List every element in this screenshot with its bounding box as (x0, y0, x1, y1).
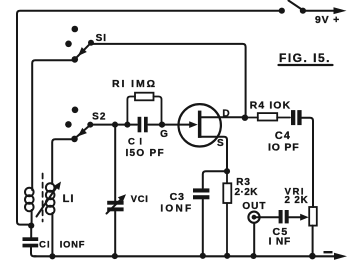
wire: S1 pole left then down to L1 left winding (32, 60, 72, 188)
capacitor C5 plates (279, 210, 283, 223)
svg-text:CI: CI (39, 240, 51, 250)
resistor R4 body (258, 113, 277, 120)
capacitor C1 10NF bottom lead (31, 248, 36, 257)
resistor R1 leads (127, 97, 135, 123)
wire: S2 pole left then down to L1 right winding (52, 139, 72, 184)
svg-text:S: S (217, 138, 224, 149)
junction node: drain / R4 (242, 115, 248, 121)
svg-text:D: D (222, 109, 229, 120)
svg-text:CI: CI (128, 137, 147, 148)
wire: C1 right plate to FET gate (148, 124, 190, 126)
capacitor C4 plates (291, 110, 295, 125)
resistor R4 leads (248, 117, 258, 119)
output jack OUT (248, 212, 259, 223)
wire: C3 to ground rail (202, 200, 204, 256)
wire: C4 to VR1 top (302, 118, 313, 207)
svg-text:OUT: OUT (242, 201, 266, 212)
svg-text:C3: C3 (170, 191, 185, 203)
variable capacitor VC1 top lead (114, 127, 116, 201)
ground rail arrow (334, 253, 347, 260)
variable capacitor VC1 plates (107, 201, 123, 205)
svg-text:IO PF: IO PF (268, 142, 299, 154)
inductor L1 adjust arrow (37, 187, 58, 217)
junction node: VC1 branch on gate line (112, 122, 118, 128)
transistor Q1 gate bar (198, 111, 202, 138)
svg-text:C4: C4 (275, 130, 291, 142)
svg-text:RI IMΩ: RI IMΩ (112, 78, 157, 90)
svg-text:IONF: IONF (60, 240, 85, 250)
svg-text:G: G (160, 129, 168, 140)
node: 9V+ terminal arrow (334, 7, 347, 14)
svg-text:R4 IOK: R4 IOK (250, 100, 292, 111)
power switch on 9V+ line (279, 8, 285, 14)
svg-text:9V +: 9V + (315, 14, 340, 26)
wire: S1 contact right then down to drain node (93, 44, 246, 115)
potentiometer VR1 body (309, 207, 317, 226)
ground rail minus sign (324, 251, 333, 253)
capacitor C1 10NF top lead (30, 226, 32, 238)
transistor Q1 gate arrowhead (189, 121, 198, 128)
variable capacitor VC1 arrow (107, 199, 122, 213)
switch S1 (72, 26, 79, 33)
ground rail (34, 255, 334, 257)
switch S2 (72, 107, 79, 114)
svg-text:2 2K: 2 2K (285, 195, 309, 206)
potentiometer VR1 bottom lead (312, 226, 314, 254)
capacitor C1 150PF plates (138, 117, 142, 133)
junction node: L1 bottom / supply / C1 decoupling (28, 223, 34, 229)
transistor Q1 source lead, down to R3 node (201, 137, 227, 169)
wire: switch to 9V+ terminal (305, 10, 334, 12)
wire: jack to C5 (257, 216, 279, 218)
junction node: R1 left leg (124, 122, 130, 128)
resistor R3 body (223, 183, 231, 203)
junction node: R1 right leg / gate G (159, 122, 165, 128)
wire: 9V+ top rail and left supply rail down to L1 node (17, 11, 279, 225)
inductor L1 right winding (46, 183, 55, 192)
junction node: R3 on rail (224, 253, 230, 259)
inductor L1 dashed core (42, 174, 44, 222)
wire: branch from source node to C3 (203, 171, 225, 188)
svg-text:FIG. I5.: FIG. I5. (279, 51, 331, 65)
svg-text:I NF: I NF (269, 236, 291, 247)
capacitor C1 10NF plates (23, 237, 39, 241)
svg-text:IONF: IONF (160, 204, 193, 215)
junction node: L1 right leg on rail (49, 253, 55, 259)
inductor L1 left winding (25, 188, 34, 197)
junction node: C3 on rail (200, 253, 206, 259)
junction node: VC1 on rail (112, 253, 118, 259)
resistor R3 leads (226, 171, 228, 183)
svg-text:SI: SI (96, 33, 107, 44)
transistor Q1 drain lead (201, 116, 243, 118)
variable capacitor VC1 bottom lead (114, 211, 116, 255)
capacitor C3 plates (193, 188, 209, 192)
svg-text:VCI: VCI (131, 194, 149, 204)
resistor R1 body (135, 93, 154, 101)
transistor Q1 JFET body (179, 104, 221, 146)
wire: C5 to VR1 wiper with arrow (289, 216, 302, 218)
svg-text:LI: LI (63, 193, 75, 205)
junction node: OUT jack on rail (250, 253, 256, 259)
svg-text:S2: S2 (92, 111, 106, 122)
svg-text:I5O PF: I5O PF (125, 148, 164, 159)
svg-text:2·2K: 2·2K (235, 187, 259, 198)
wire: S2 contact to C1 left plate (gate line left part) (93, 124, 138, 126)
junction node: VR1 on rail (309, 253, 316, 260)
junction node: source / R3 / C3 (224, 168, 230, 174)
